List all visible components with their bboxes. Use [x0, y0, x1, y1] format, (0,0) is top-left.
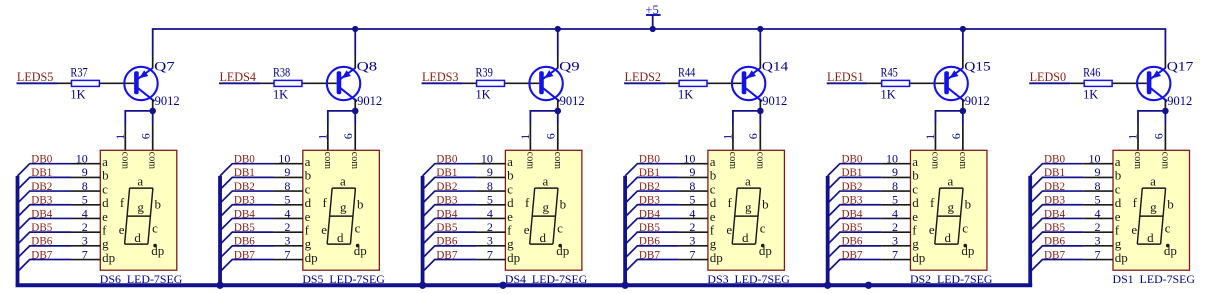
- svg-text:DB3: DB3: [639, 193, 660, 207]
- svg-text:R44: R44: [678, 66, 695, 80]
- svg-text:b: b: [965, 196, 972, 211]
- svg-text:a: a: [1150, 173, 1156, 188]
- svg-text:10: 10: [886, 152, 898, 166]
- svg-text:2: 2: [1095, 220, 1101, 234]
- svg-text:R46: R46: [1083, 66, 1100, 80]
- svg-text:dp: dp: [1164, 243, 1177, 258]
- svg-text:R37: R37: [70, 66, 87, 80]
- svg-text:f: f: [1133, 195, 1138, 210]
- svg-text:R39: R39: [475, 66, 492, 80]
- svg-text:LEDS5: LEDS5: [17, 70, 54, 84]
- svg-text:1: 1: [923, 134, 937, 140]
- svg-text:3: 3: [689, 234, 695, 248]
- svg-text:DB1: DB1: [436, 165, 457, 179]
- svg-text:10: 10: [1089, 152, 1101, 166]
- svg-text:2: 2: [82, 220, 88, 234]
- svg-text:R45: R45: [881, 66, 898, 80]
- svg-text:9012: 9012: [357, 94, 382, 108]
- svg-text:a: a: [948, 173, 954, 188]
- svg-text:8: 8: [689, 179, 695, 193]
- svg-text:4: 4: [284, 206, 290, 220]
- svg-text:e: e: [524, 222, 530, 237]
- svg-text:6: 6: [341, 133, 355, 139]
- svg-text:DB4: DB4: [639, 206, 660, 220]
- svg-text:3: 3: [892, 234, 898, 248]
- svg-text:f: f: [728, 195, 733, 210]
- svg-text:com: com: [1132, 152, 1143, 169]
- svg-text:dp: dp: [507, 250, 520, 265]
- svg-text:DB7: DB7: [31, 247, 52, 261]
- svg-text:DB0: DB0: [234, 152, 255, 166]
- svg-text:g: g: [137, 200, 144, 215]
- svg-text:9: 9: [1095, 165, 1101, 179]
- svg-text:9012: 9012: [560, 94, 585, 108]
- svg-text:DB4: DB4: [1044, 206, 1065, 220]
- svg-text:dp: dp: [556, 243, 569, 258]
- svg-text:7: 7: [689, 247, 695, 261]
- svg-text:10: 10: [278, 152, 290, 166]
- svg-text:e: e: [726, 222, 732, 237]
- svg-text:DB6: DB6: [234, 234, 255, 248]
- svg-text:5: 5: [892, 193, 898, 207]
- svg-text:com: com: [349, 152, 360, 169]
- svg-text:DB5: DB5: [639, 220, 660, 234]
- svg-text:DS2 LED-7SEG: DS2 LED-7SEG: [910, 274, 993, 286]
- svg-text:Q7: Q7: [154, 59, 175, 73]
- svg-text:DB7: DB7: [639, 247, 660, 261]
- svg-text:8: 8: [82, 179, 88, 193]
- svg-text:2: 2: [487, 220, 493, 234]
- svg-text:Q9: Q9: [559, 59, 580, 73]
- svg-text:DS6 LED-7SEG: DS6 LED-7SEG: [100, 274, 183, 286]
- svg-text:6: 6: [1151, 133, 1165, 139]
- svg-text:9012: 9012: [762, 94, 787, 108]
- svg-text:4: 4: [82, 206, 88, 220]
- svg-text:e: e: [119, 222, 125, 237]
- svg-text:e: e: [1131, 222, 1137, 237]
- svg-text:5: 5: [689, 193, 695, 207]
- svg-text:2: 2: [689, 220, 695, 234]
- svg-text:com: com: [119, 152, 130, 169]
- svg-text:1K: 1K: [678, 87, 693, 101]
- svg-text:DB6: DB6: [436, 234, 457, 248]
- svg-text:g: g: [948, 200, 955, 215]
- svg-text:1K: 1K: [273, 87, 288, 101]
- svg-text:c: c: [557, 221, 563, 236]
- svg-text:LEDS2: LEDS2: [625, 70, 662, 84]
- svg-text:DB2: DB2: [31, 179, 52, 193]
- svg-text:3: 3: [82, 234, 88, 248]
- svg-text:b: b: [155, 196, 162, 211]
- svg-text:DB0: DB0: [639, 152, 660, 166]
- svg-text:DB3: DB3: [31, 193, 52, 207]
- svg-text:f: f: [525, 195, 530, 210]
- svg-text:DB2: DB2: [234, 179, 255, 193]
- svg-text:1K: 1K: [70, 87, 85, 101]
- svg-text:e: e: [321, 222, 327, 237]
- svg-text:5: 5: [487, 193, 493, 207]
- svg-text:9: 9: [892, 165, 898, 179]
- svg-text:6: 6: [746, 133, 760, 139]
- svg-text:6: 6: [544, 133, 558, 139]
- svg-text:d: d: [134, 230, 141, 245]
- svg-text:DB0: DB0: [31, 152, 52, 166]
- svg-text:DB6: DB6: [639, 234, 660, 248]
- svg-text:7: 7: [284, 247, 290, 261]
- svg-text:1: 1: [518, 134, 532, 140]
- svg-text:DB6: DB6: [31, 234, 52, 248]
- svg-text:dp: dp: [759, 243, 772, 258]
- svg-text:5: 5: [82, 193, 88, 207]
- svg-text:LEDS1: LEDS1: [827, 70, 864, 84]
- svg-text:7: 7: [892, 247, 898, 261]
- svg-text:DS3 LED-7SEG: DS3 LED-7SEG: [707, 274, 790, 286]
- svg-text:4: 4: [892, 206, 898, 220]
- svg-text:DS4 LED-7SEG: DS4 LED-7SEG: [505, 274, 588, 286]
- svg-text:DB3: DB3: [234, 193, 255, 207]
- svg-text:DB0: DB0: [1044, 152, 1065, 166]
- svg-text:dp: dp: [102, 250, 115, 265]
- svg-text:7: 7: [82, 247, 88, 261]
- svg-text:d: d: [539, 230, 546, 245]
- svg-text:DB6: DB6: [841, 234, 862, 248]
- svg-text:DB4: DB4: [436, 206, 457, 220]
- svg-text:g: g: [542, 200, 549, 215]
- svg-text:com: com: [929, 152, 940, 169]
- svg-text:DB4: DB4: [31, 206, 52, 220]
- svg-text:DB5: DB5: [31, 220, 52, 234]
- svg-text:1K: 1K: [475, 87, 490, 101]
- svg-text:com: com: [322, 152, 333, 169]
- svg-text:9: 9: [82, 165, 88, 179]
- svg-text:com: com: [552, 152, 563, 169]
- svg-text:b: b: [1167, 196, 1174, 211]
- svg-text:DB5: DB5: [1044, 220, 1065, 234]
- svg-text:DB4: DB4: [234, 206, 255, 220]
- svg-text:10: 10: [481, 152, 493, 166]
- svg-text:2: 2: [284, 220, 290, 234]
- svg-text:7: 7: [1095, 247, 1101, 261]
- svg-text:d: d: [945, 230, 952, 245]
- svg-text:com: com: [727, 152, 738, 169]
- svg-text:dp: dp: [151, 243, 164, 258]
- svg-text:8: 8: [892, 179, 898, 193]
- svg-text:d: d: [742, 230, 749, 245]
- svg-text:DB5: DB5: [841, 220, 862, 234]
- svg-text:dp: dp: [1115, 250, 1128, 265]
- svg-text:DB3: DB3: [841, 193, 862, 207]
- svg-text:a: a: [542, 173, 548, 188]
- svg-text:6: 6: [949, 133, 963, 139]
- svg-text:a: a: [137, 173, 143, 188]
- svg-text:5: 5: [284, 193, 290, 207]
- svg-text:3: 3: [284, 234, 290, 248]
- svg-text:1K: 1K: [881, 87, 896, 101]
- svg-text:com: com: [147, 152, 158, 169]
- svg-text:DB2: DB2: [841, 179, 862, 193]
- svg-text:c: c: [760, 221, 766, 236]
- svg-text:c: c: [1165, 221, 1171, 236]
- svg-text:1: 1: [315, 134, 329, 140]
- svg-text:6: 6: [139, 133, 153, 139]
- svg-text:1K: 1K: [1083, 87, 1098, 101]
- svg-text:DB2: DB2: [639, 179, 660, 193]
- svg-text:8: 8: [487, 179, 493, 193]
- svg-text:e: e: [929, 222, 935, 237]
- svg-text:1: 1: [1126, 134, 1140, 140]
- svg-text:DB0: DB0: [841, 152, 862, 166]
- svg-text:4: 4: [1095, 206, 1101, 220]
- svg-text:3: 3: [1095, 234, 1101, 248]
- svg-text:Q14: Q14: [762, 59, 789, 73]
- svg-text:DB1: DB1: [1044, 165, 1065, 179]
- svg-text:Q17: Q17: [1167, 59, 1194, 73]
- svg-text:DB2: DB2: [1044, 179, 1065, 193]
- svg-text:g: g: [340, 200, 347, 215]
- svg-text:DB7: DB7: [841, 247, 862, 261]
- svg-text:com: com: [1159, 152, 1170, 169]
- svg-text:5: 5: [1095, 193, 1101, 207]
- svg-text:b: b: [560, 196, 567, 211]
- svg-text:dp: dp: [710, 250, 723, 265]
- svg-text:2: 2: [892, 220, 898, 234]
- svg-text:f: f: [930, 195, 935, 210]
- svg-text:DB1: DB1: [234, 165, 255, 179]
- svg-text:7: 7: [487, 247, 493, 261]
- svg-text:9012: 9012: [965, 94, 990, 108]
- svg-text:com: com: [957, 152, 968, 169]
- svg-text:3: 3: [487, 234, 493, 248]
- svg-text:c: c: [962, 221, 968, 236]
- svg-text:9012: 9012: [155, 94, 180, 108]
- svg-text:DB3: DB3: [436, 193, 457, 207]
- svg-text:DS1 LED-7SEG: DS1 LED-7SEG: [1113, 274, 1196, 286]
- svg-text:4: 4: [689, 206, 695, 220]
- svg-text:DB0: DB0: [436, 152, 457, 166]
- svg-text:a: a: [745, 173, 751, 188]
- svg-text:Q15: Q15: [964, 59, 991, 73]
- svg-text:c: c: [152, 221, 158, 236]
- svg-text:b: b: [762, 196, 769, 211]
- svg-text:LEDS3: LEDS3: [422, 70, 459, 84]
- svg-text:b: b: [357, 196, 364, 211]
- svg-text:DB5: DB5: [436, 220, 457, 234]
- svg-text:com: com: [524, 152, 535, 169]
- svg-text:DB4: DB4: [841, 206, 862, 220]
- svg-text:1: 1: [113, 134, 127, 140]
- svg-text:LEDS4: LEDS4: [219, 70, 256, 84]
- svg-text:9012: 9012: [1167, 94, 1192, 108]
- svg-text:LEDS0: LEDS0: [1030, 70, 1067, 84]
- svg-text:f: f: [322, 195, 327, 210]
- svg-text:8: 8: [284, 179, 290, 193]
- svg-text:f: f: [120, 195, 125, 210]
- svg-text:DB5: DB5: [234, 220, 255, 234]
- svg-text:1: 1: [720, 134, 734, 140]
- svg-text:d: d: [1147, 230, 1154, 245]
- svg-text:DB1: DB1: [841, 165, 862, 179]
- svg-text:DB6: DB6: [1044, 234, 1065, 248]
- svg-text:dp: dp: [961, 243, 974, 258]
- svg-text:9: 9: [689, 165, 695, 179]
- svg-text:DB7: DB7: [436, 247, 457, 261]
- svg-text:10: 10: [76, 152, 88, 166]
- svg-text:DB7: DB7: [1044, 247, 1065, 261]
- svg-text:DB1: DB1: [639, 165, 660, 179]
- svg-text:DB1: DB1: [31, 165, 52, 179]
- svg-text:4: 4: [487, 206, 493, 220]
- svg-text:DB3: DB3: [1044, 193, 1065, 207]
- svg-text:c: c: [355, 221, 361, 236]
- svg-text:9: 9: [284, 165, 290, 179]
- svg-text:com: com: [754, 152, 765, 169]
- svg-text:dp: dp: [305, 250, 318, 265]
- svg-text:dp: dp: [354, 243, 367, 258]
- svg-text:a: a: [340, 173, 346, 188]
- svg-text:DS5 LED-7SEG: DS5 LED-7SEG: [302, 274, 385, 286]
- svg-text:DB2: DB2: [436, 179, 457, 193]
- svg-text:g: g: [745, 200, 752, 215]
- svg-text:R38: R38: [273, 66, 290, 80]
- svg-text:Q8: Q8: [357, 59, 378, 73]
- svg-text:10: 10: [683, 152, 695, 166]
- svg-text:dp: dp: [912, 250, 925, 265]
- svg-text:DB7: DB7: [234, 247, 255, 261]
- svg-text:g: g: [1150, 200, 1157, 215]
- svg-text:8: 8: [1095, 179, 1101, 193]
- svg-text:d: d: [337, 230, 344, 245]
- svg-text:9: 9: [487, 165, 493, 179]
